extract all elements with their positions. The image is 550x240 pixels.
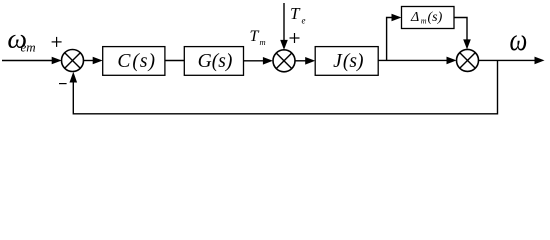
node omega_em input label xyxy=(7,24,35,55)
wire S3 to output xyxy=(479,57,545,65)
svg-text:e: e xyxy=(302,16,306,26)
wire S2 to block J xyxy=(295,57,315,65)
summing junction S1 xyxy=(62,50,84,72)
svg-text:C(s): C(s) xyxy=(117,51,155,72)
svg-text:em: em xyxy=(21,40,36,55)
summing junction S2 xyxy=(273,50,295,72)
svg-text:m: m xyxy=(421,17,427,26)
node T_m label xyxy=(250,28,266,47)
block C(s) xyxy=(103,47,165,76)
svg-text:Δ: Δ xyxy=(410,10,419,25)
minus sign at summing junction S1 xyxy=(59,83,67,85)
svg-text:(s): (s) xyxy=(428,10,443,25)
wire block J to summing junction S3 xyxy=(378,57,456,65)
block Delta_m(s) xyxy=(402,7,455,29)
svg-text:m: m xyxy=(260,37,266,47)
node omega output label xyxy=(510,24,528,58)
wire branch up to block Delta_m xyxy=(387,14,402,61)
block G(s) xyxy=(184,47,243,76)
block J(s) xyxy=(315,47,378,76)
wire block G to summing junction S2 xyxy=(244,57,273,65)
wire block C to block G xyxy=(165,60,184,62)
svg-text:T: T xyxy=(250,28,260,45)
svg-text:T: T xyxy=(290,4,301,23)
wire block Delta_m down to summing junction S3 xyxy=(454,18,471,50)
node T_e label xyxy=(290,4,306,26)
wire T_e input down into summing junction S2 xyxy=(280,3,288,50)
wire feedback from output down, across bottom, up into S1 xyxy=(70,60,498,113)
wire input to summing junction S1 xyxy=(2,57,62,65)
plus sign at summing junction S2 xyxy=(290,33,300,43)
svg-text:G(s): G(s) xyxy=(198,51,233,72)
wire S1 to block C xyxy=(84,57,103,65)
svg-text:ω: ω xyxy=(510,24,528,58)
svg-text:J(s): J(s) xyxy=(333,51,363,72)
plus sign at summing junction S1 xyxy=(52,37,62,47)
summing junction S3 xyxy=(457,49,479,71)
